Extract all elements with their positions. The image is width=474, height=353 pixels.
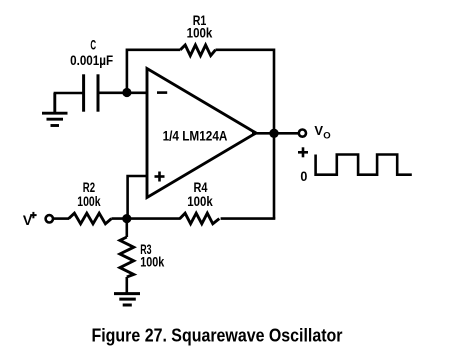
wire (non-inverting input riser) (128, 176, 147, 219)
wire (R3 to ground) (126, 277, 129, 293)
svg-text:100k: 100k (140, 254, 164, 270)
wire (inverting node riser to top rail) (127, 50, 180, 93)
op-amp U1 1/4 LM124A (147, 69, 256, 198)
node (output junction) (269, 129, 278, 138)
svg-text:Figure 27. Squarewave Oscillat: Figure 27. Squarewave Oscillator (92, 325, 343, 345)
node (inverting input junction) (122, 88, 131, 97)
svg-text:100k: 100k (187, 25, 213, 41)
wire (R2 to node) (111, 217, 180, 220)
svg-text:O: O (323, 131, 330, 142)
resistor R4 (180, 179, 220, 224)
wire (V+ terminal to R2) (53, 217, 69, 220)
resistor R3 (120, 237, 165, 277)
terminal Vo (299, 123, 331, 142)
waveform plus label (298, 147, 308, 157)
resistor R2 (69, 179, 112, 224)
node (feedback divider junction) (122, 214, 131, 223)
svg-text:0.001µF: 0.001µF (70, 52, 113, 68)
wire (node to R3) (126, 219, 129, 237)
svg-text:100k: 100k (77, 193, 100, 209)
svg-text:1/4 LM124A: 1/4 LM124A (163, 128, 228, 144)
waveform (squarewave output) (316, 155, 412, 175)
svg-text:0: 0 (300, 168, 307, 184)
terminal V+ (23, 212, 53, 228)
capacitor C 0.001uF (70, 37, 113, 112)
wire (op-amp output) (252, 132, 298, 135)
svg-text:V: V (314, 123, 323, 138)
wire (top rail right segment and right vertical drop) (216, 50, 275, 219)
wire (ground to capacitor) (54, 92, 84, 95)
resistor R1 (180, 12, 215, 56)
wire (R4 to right vertical) (221, 217, 276, 220)
svg-text:100k: 100k (187, 193, 213, 209)
wire (capacitor to inverting input) (98, 92, 147, 95)
ground (top left) (42, 93, 68, 126)
ground (bottom) (114, 294, 140, 305)
svg-text:C: C (90, 37, 96, 53)
